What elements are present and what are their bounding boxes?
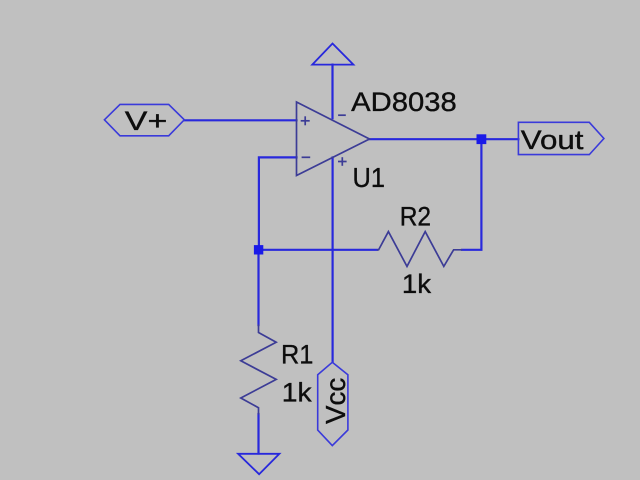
svg-text:1k: 1k bbox=[282, 378, 313, 408]
svg-text:1k: 1k bbox=[402, 269, 432, 299]
svg-text:R2: R2 bbox=[400, 202, 431, 232]
svg-text:U1: U1 bbox=[353, 162, 386, 193]
svg-text:AD8038: AD8038 bbox=[351, 87, 457, 117]
svg-text:Vout: Vout bbox=[521, 125, 584, 155]
svg-text:R1: R1 bbox=[281, 339, 313, 369]
svg-text:Vcc: Vcc bbox=[320, 378, 351, 424]
svg-text:V+: V+ bbox=[125, 106, 168, 136]
